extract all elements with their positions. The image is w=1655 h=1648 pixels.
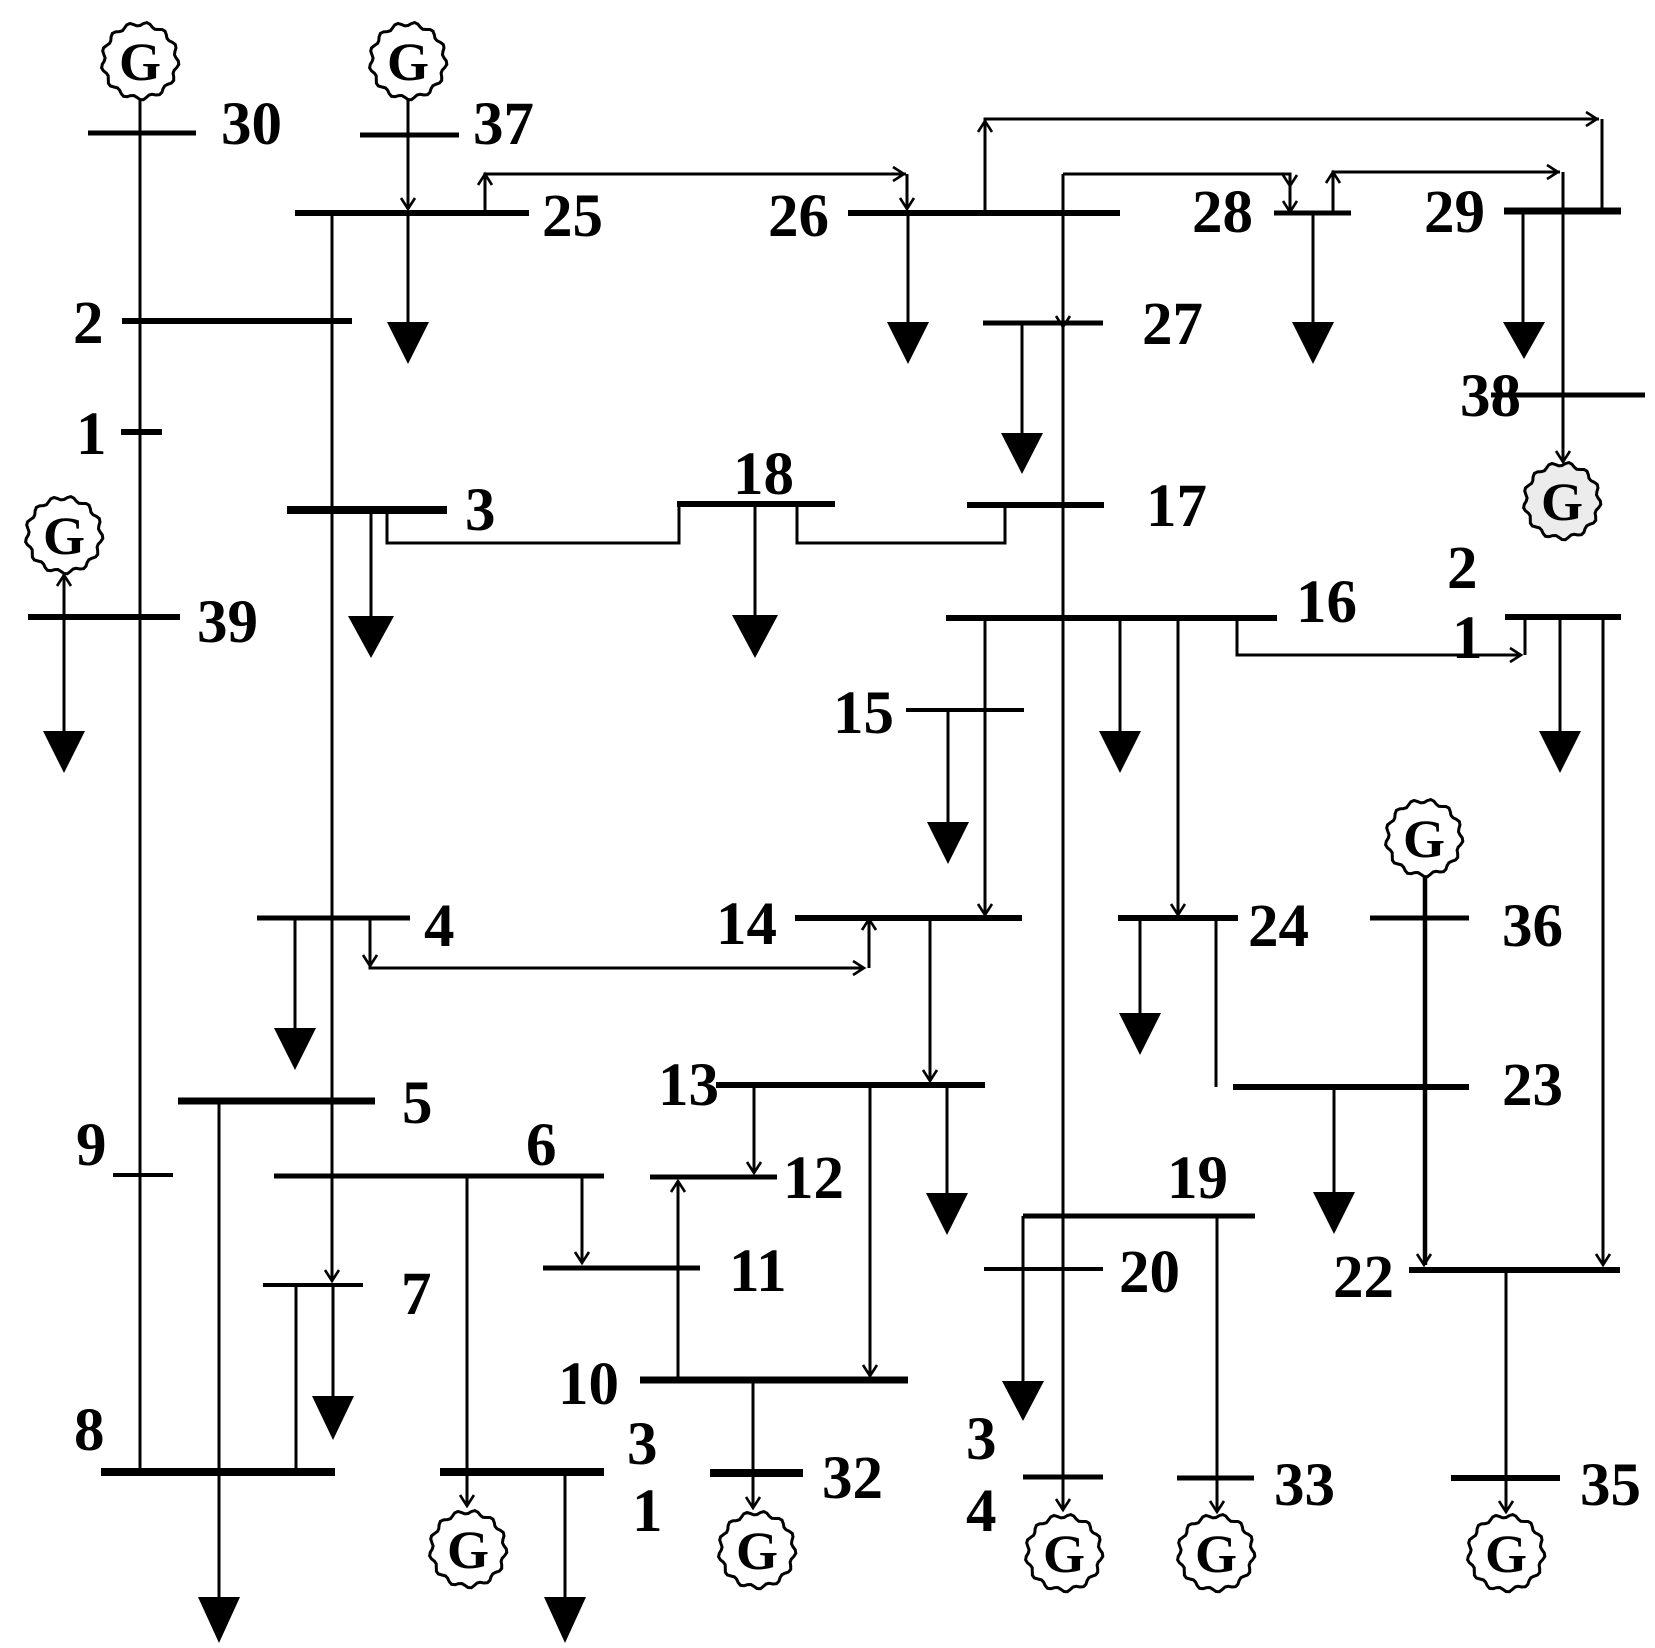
svg-text:36: 36 [1502,893,1563,960]
svg-text:6: 6 [526,1112,557,1179]
svg-text:32: 32 [822,1445,883,1512]
svg-text:17: 17 [1146,473,1207,540]
svg-text:G: G [447,1520,489,1580]
svg-text:G: G [1403,809,1445,869]
svg-text:15: 15 [833,680,894,747]
svg-text:10: 10 [558,1351,619,1418]
svg-text:G: G [1541,472,1583,532]
svg-text:33: 33 [1274,1452,1335,1519]
svg-text:1: 1 [76,401,107,468]
svg-text:G: G [1485,1524,1527,1584]
svg-text:29: 29 [1424,179,1485,246]
svg-text:25: 25 [542,183,603,250]
svg-text:G: G [736,1521,778,1581]
svg-text:11: 11 [729,1238,787,1305]
svg-text:G: G [387,32,429,92]
svg-text:39: 39 [197,589,258,656]
svg-text:37: 37 [473,91,534,158]
svg-text:22: 22 [1333,1244,1394,1311]
svg-text:24: 24 [1248,893,1309,960]
svg-text:1: 1 [1452,605,1483,672]
svg-text:4: 4 [966,1478,997,1545]
svg-text:G: G [1195,1524,1237,1584]
svg-text:13: 13 [658,1052,719,1119]
svg-text:23: 23 [1502,1052,1563,1119]
svg-text:38: 38 [1460,363,1521,430]
svg-text:3: 3 [966,1406,997,1473]
svg-text:1: 1 [632,1478,663,1545]
svg-text:4: 4 [424,893,455,960]
svg-text:18: 18 [733,441,794,508]
svg-text:19: 19 [1167,1145,1228,1212]
svg-text:5: 5 [402,1070,433,1137]
svg-text:27: 27 [1142,291,1203,358]
svg-text:G: G [43,506,85,566]
svg-text:12: 12 [783,1145,844,1212]
svg-text:35: 35 [1580,1452,1641,1519]
svg-text:G: G [1043,1524,1085,1584]
svg-text:G: G [119,32,161,92]
svg-text:7: 7 [401,1261,432,1328]
svg-text:2: 2 [73,290,104,357]
svg-text:20: 20 [1119,1239,1180,1306]
svg-text:3: 3 [465,477,496,544]
svg-text:28: 28 [1192,179,1253,246]
svg-text:9: 9 [76,1112,107,1179]
svg-text:16: 16 [1296,569,1357,636]
svg-text:30: 30 [221,91,282,158]
svg-text:26: 26 [768,183,829,250]
svg-text:14: 14 [716,891,777,958]
svg-text:8: 8 [74,1397,105,1464]
svg-text:2: 2 [1447,535,1478,602]
svg-text:3: 3 [627,1411,658,1478]
